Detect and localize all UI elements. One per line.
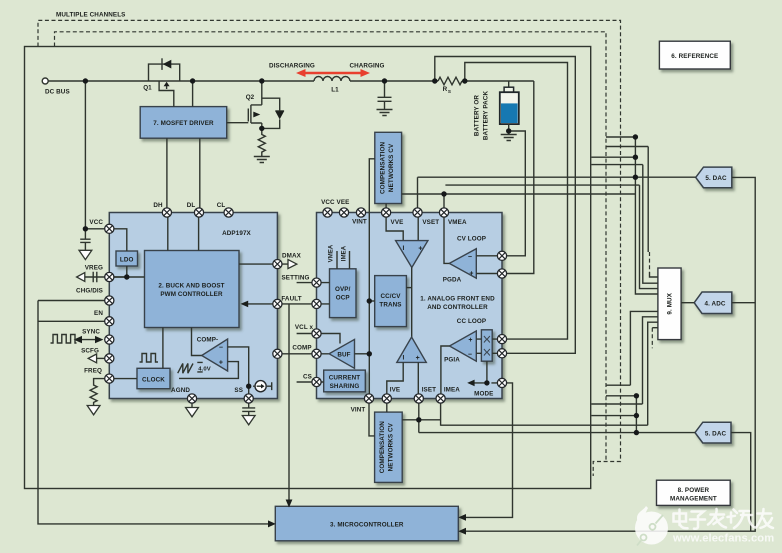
svg-text:4. ADC: 4. ADC	[704, 301, 725, 308]
svg-text:VINT: VINT	[352, 219, 367, 226]
svg-text:PWM CONTROLLER: PWM CONTROLLER	[160, 291, 223, 298]
svg-text:VVE: VVE	[391, 219, 404, 226]
svg-text:NETWORKS CV: NETWORKS CV	[388, 422, 395, 471]
svg-text:LDO: LDO	[120, 257, 134, 264]
svg-text:CLOCK: CLOCK	[142, 377, 165, 384]
svg-text:DC BUS: DC BUS	[45, 89, 70, 96]
svg-text:+: +	[418, 246, 422, 253]
svg-text:7. MOSFET DRIVER: 7. MOSFET DRIVER	[153, 120, 214, 127]
svg-text:VINT: VINT	[351, 407, 366, 414]
svg-text:COMPENSATION: COMPENSATION	[379, 141, 386, 194]
svg-text:VCC VEE: VCC VEE	[321, 199, 349, 206]
svg-text:CURRENT: CURRENT	[329, 375, 361, 382]
svg-text:IVE: IVE	[390, 387, 400, 394]
svg-text:SCFG: SCFG	[81, 348, 99, 355]
svg-text:MULTIPLE CHANNELS: MULTIPLE CHANNELS	[56, 12, 125, 19]
svg-text:CHARGING: CHARGING	[349, 63, 384, 70]
svg-text:DH: DH	[153, 202, 163, 209]
svg-text:BATTERY PACK: BATTERY PACK	[483, 91, 490, 141]
svg-text:BUF: BUF	[337, 352, 350, 359]
svg-text:+: +	[219, 359, 223, 366]
svg-text:−: −	[468, 254, 472, 261]
svg-text:+: +	[416, 355, 420, 362]
svg-text:L1: L1	[331, 87, 339, 94]
svg-text:6. REFERENCE: 6. REFERENCE	[671, 53, 718, 60]
svg-text:VMEA: VMEA	[448, 219, 467, 226]
svg-text:CL: CL	[217, 202, 226, 209]
svg-text:DMAX: DMAX	[282, 253, 302, 260]
svg-text:SYNC: SYNC	[82, 329, 100, 336]
svg-text:ISET: ISET	[422, 387, 436, 394]
svg-text:3. MICROCONTROLLER: 3. MICROCONTROLLER	[330, 521, 404, 528]
svg-text:CC/CV: CC/CV	[380, 293, 401, 300]
svg-text:VREG: VREG	[85, 265, 103, 272]
svg-text:8. POWER: 8. POWER	[678, 487, 710, 494]
svg-text:4.0V: 4.0V	[198, 367, 211, 373]
svg-text:I: I	[403, 355, 405, 362]
svg-text:SS: SS	[234, 387, 243, 394]
svg-text:COMPENSATION: COMPENSATION	[379, 421, 386, 474]
svg-text:SETTING: SETTING	[282, 275, 310, 282]
svg-text:AND CONTROLLER: AND CONTROLLER	[427, 304, 488, 311]
svg-text:+: +	[468, 337, 472, 344]
svg-text:FAULT: FAULT	[281, 296, 301, 303]
svg-text:S: S	[448, 89, 451, 94]
svg-text:NETWORKS CV: NETWORKS CV	[388, 143, 395, 192]
svg-text:BATTERY OR: BATTERY OR	[474, 95, 481, 136]
svg-text:IMEA: IMEA	[444, 387, 460, 394]
svg-text:DISCHARGING: DISCHARGING	[269, 63, 315, 70]
svg-text:+: +	[469, 271, 473, 278]
svg-text:www.elecfans.com: www.elecfans.com	[672, 533, 774, 545]
svg-text:9. MUX: 9. MUX	[667, 292, 674, 314]
svg-text:MANAGEMENT: MANAGEMENT	[670, 496, 717, 503]
svg-text:AGND: AGND	[171, 387, 190, 394]
svg-text:COMP: COMP	[292, 345, 311, 352]
svg-text:MODE: MODE	[474, 391, 493, 398]
svg-text:PGIA: PGIA	[444, 357, 460, 364]
svg-text:EN: EN	[94, 310, 103, 317]
svg-text:VCL x: VCL x	[295, 324, 314, 331]
svg-text:2. BUCK AND BOOST: 2. BUCK AND BOOST	[158, 283, 224, 290]
svg-text:FREQ: FREQ	[84, 368, 102, 375]
svg-text:1. ANALOG FRONT END: 1. ANALOG FRONT END	[420, 296, 495, 303]
svg-text:PGDA: PGDA	[443, 277, 462, 284]
svg-text:DL: DL	[187, 202, 196, 209]
svg-text:VCC: VCC	[89, 219, 103, 226]
svg-text:ADP197X: ADP197X	[222, 230, 251, 237]
svg-text:CS: CS	[303, 374, 312, 381]
svg-text:Q2: Q2	[246, 94, 255, 101]
svg-text:CC LOOP: CC LOOP	[457, 318, 486, 325]
svg-text:5. DAC: 5. DAC	[705, 175, 727, 182]
svg-text:OCP: OCP	[336, 295, 350, 302]
svg-text:I: I	[403, 245, 405, 252]
svg-text:Q1: Q1	[143, 85, 152, 92]
svg-text:CV LOOP: CV LOOP	[457, 236, 486, 243]
svg-text:5. DAC: 5. DAC	[705, 431, 727, 438]
svg-text:CHG/DIS: CHG/DIS	[76, 288, 103, 295]
svg-text:SHARING: SHARING	[330, 383, 360, 390]
svg-text:TRANS: TRANS	[379, 302, 401, 309]
svg-text:IMEA: IMEA	[342, 245, 348, 261]
svg-text:COMP-: COMP-	[197, 337, 219, 344]
svg-text:−: −	[468, 352, 472, 359]
svg-text:−: −	[219, 345, 223, 352]
svg-text:VSET: VSET	[422, 219, 439, 226]
svg-text:OVP/: OVP/	[335, 286, 351, 293]
svg-text:VMEA: VMEA	[329, 244, 335, 262]
